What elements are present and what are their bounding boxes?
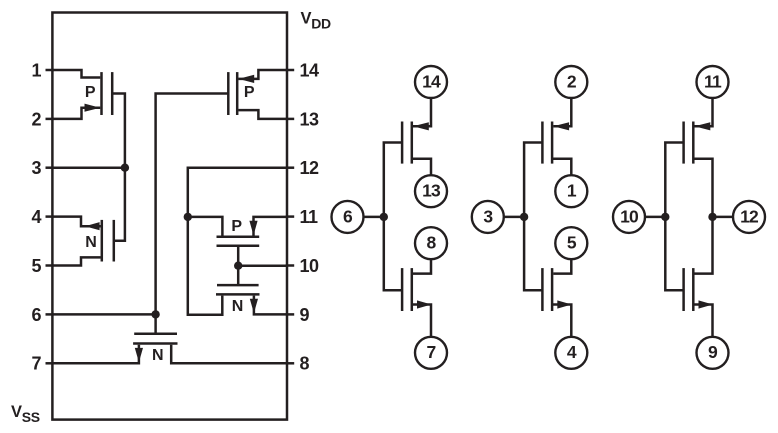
- svg-text:12: 12: [740, 206, 759, 226]
- svg-text:6: 6: [31, 305, 41, 325]
- pin 6 label: [31, 305, 41, 325]
- pin 1 label: [31, 60, 41, 80]
- wire pin 2 to PMOS source (group 2): [553, 98, 571, 126]
- wire NMOS source to pin 4 (group 2): [552, 305, 571, 337]
- PMOS source arrow group 3: [695, 122, 711, 130]
- NMOS transistor body group 3: [684, 268, 694, 311]
- Q1 label P: [85, 84, 96, 101]
- NMOS source arrow group 1: [417, 300, 431, 308]
- pin 6 terminal circle (group 1): [332, 201, 364, 233]
- wire pin 14 to PMOS source (group 1): [413, 98, 431, 126]
- svg-text:13: 13: [422, 181, 441, 201]
- transistor Q1 PMOS body (channel+gate bars): [102, 72, 113, 115]
- wire pin 1 to Q1 drain: [52, 70, 100, 78]
- svg-text:14: 14: [422, 71, 441, 91]
- svg-text:8: 8: [300, 354, 310, 374]
- junction node 3 (gates Q1,Q2): [121, 164, 129, 172]
- wire Q4 source to pin 7: [52, 345, 138, 364]
- NMOS gate wire to common gate node (group 2): [524, 217, 542, 290]
- NMOS transistor body group 2: [542, 268, 552, 311]
- transistor Q3 PMOS body (channel+gate bars): [228, 72, 237, 115]
- PMOS gate wire to common gate node (group 2): [524, 143, 542, 217]
- junction common drain node (group 3): [708, 213, 716, 221]
- NMOS gate wire to common gate node (group 1): [384, 217, 402, 290]
- wire Q6 source to pin 9: [254, 296, 287, 315]
- pin 8 label: [300, 354, 310, 374]
- svg-text:N: N: [232, 298, 243, 315]
- Q5 label P: [231, 218, 242, 235]
- svg-text:7: 7: [31, 354, 41, 374]
- svg-text:N: N: [152, 347, 163, 364]
- PMOS transistor body group 2: [542, 122, 552, 164]
- wire pin 10 to gate node (group 3): [645, 216, 665, 219]
- wire node 10 to Q6 gate: [237, 266, 240, 285]
- NMOS source arrow group 2: [557, 300, 571, 308]
- pin 13 terminal circle (group 1): [415, 175, 447, 207]
- transistor Q2 NMOS body (channel+gate bars): [102, 220, 114, 262]
- wire Q3 gate to node 6: [156, 94, 229, 315]
- junction node 6 (gates Q3,Q4): [151, 310, 159, 318]
- pin 14 stub: [286, 69, 295, 72]
- wire PMOS drain to pin 1 (group 2): [552, 159, 571, 176]
- Q3 source arrow (points into channel): [239, 75, 255, 83]
- Q4 source arrow (points away from channel, down): [135, 348, 143, 362]
- wire pin 13 to Q3 drain: [238, 110, 287, 119]
- svg-text:8: 8: [427, 233, 437, 253]
- pin 7 stub: [46, 362, 54, 365]
- transistor Q5 PMOS body (channel+gate bars): [217, 237, 260, 246]
- pin 5 stub: [46, 264, 54, 267]
- svg-text:P: P: [244, 84, 255, 101]
- pin 13 label: [300, 109, 320, 129]
- wire pin 4 to Q2 drain: [52, 217, 100, 227]
- pin 14 label: [300, 60, 320, 80]
- svg-text:5: 5: [31, 256, 41, 276]
- wire pin 12 to node 12: [188, 168, 287, 217]
- pin 2 stub: [46, 118, 54, 121]
- pin 7 terminal circle (group 1): [415, 337, 447, 369]
- wire PMOS drain to pin 13 (group 1): [412, 159, 431, 176]
- wire drain node to pin 12 (group 3): [713, 216, 734, 219]
- Q6 label N: [232, 298, 243, 315]
- pin 10 terminal circle (group 3): [613, 201, 645, 233]
- svg-text:2: 2: [31, 109, 41, 129]
- pin 12 label: [300, 158, 320, 178]
- svg-text:7: 7: [427, 342, 436, 362]
- pin 11 terminal circle (group 3): [697, 66, 729, 98]
- wire pin 11 to Q5 source: [254, 217, 288, 236]
- wire node 12 to Q5 drain: [188, 217, 223, 236]
- Q2 drain arrow (points away from channel): [85, 222, 100, 230]
- svg-text:N: N: [85, 234, 96, 251]
- pin 9 label: [300, 305, 310, 325]
- svg-text:12: 12: [300, 158, 320, 178]
- junction common gate node (group 3): [661, 213, 669, 221]
- pin 4 stub: [46, 215, 54, 218]
- svg-text:2: 2: [567, 71, 577, 91]
- wire pin 10 to node 10: [238, 264, 287, 267]
- pin 3 terminal circle (group 2): [472, 201, 504, 233]
- VDD label: [301, 10, 332, 32]
- Q4 label N: [152, 347, 163, 364]
- pin 13 stub: [286, 118, 295, 121]
- wire pin 14 to Q3 source: [238, 70, 287, 79]
- pin 11 stub: [286, 215, 295, 218]
- PMOS source arrow group 1: [413, 122, 429, 130]
- svg-text:9: 9: [708, 342, 718, 362]
- pin 8 stub: [286, 362, 295, 365]
- wire node 12 to Q6 drain: [188, 217, 223, 315]
- wire common drain (PMOS drain to NMOS drain) group 3: [693, 159, 712, 274]
- pin 2 label: [31, 109, 41, 129]
- PMOS source arrow group 2: [553, 122, 569, 130]
- Q1 source arrow (points into channel): [85, 104, 101, 112]
- pin 2 terminal circle (group 2): [555, 66, 587, 98]
- svg-text:14: 14: [300, 60, 320, 80]
- junction node 10 (gates Q5,Q6): [234, 262, 242, 270]
- svg-text:13: 13: [300, 109, 320, 129]
- pin 9 terminal circle (group 3): [697, 337, 729, 369]
- PMOS gate wire to common gate node (group 1): [384, 143, 402, 217]
- pin 9 stub: [286, 313, 295, 316]
- PMOS gate wire to common gate node (group 3): [665, 143, 683, 217]
- pin 10 stub: [286, 264, 295, 267]
- Q6 source arrow (points away from channel, down): [250, 299, 258, 313]
- PMOS transistor body group 1: [402, 122, 412, 164]
- svg-text:P: P: [85, 84, 96, 101]
- pin 1 terminal circle (group 2): [555, 175, 587, 207]
- pin 5 terminal circle (group 2): [555, 227, 587, 259]
- VSS label: [11, 403, 40, 425]
- wire pin 11 to PMOS source (group 3): [695, 98, 713, 126]
- wire node 6 to Q4 gate: [154, 314, 157, 332]
- pin 11 label: [300, 207, 319, 227]
- svg-text:4: 4: [567, 342, 577, 362]
- IC package outline: [52, 13, 287, 420]
- wire Q4 drain to pin 8: [171, 345, 287, 364]
- wire Q2 gate to node 3: [114, 168, 125, 241]
- wire NMOS source to pin 7 (group 1): [412, 305, 431, 337]
- wire pin 6 to gate node (group 1): [364, 216, 384, 219]
- pin 4 terminal circle (group 2): [555, 337, 587, 369]
- NMOS source arrow group 3: [699, 300, 713, 308]
- pin 12 terminal circle (group 3): [733, 201, 765, 233]
- PMOS transistor body group 3: [684, 122, 694, 164]
- pin 8 terminal circle (group 1): [415, 227, 447, 259]
- NMOS transistor body group 1: [402, 268, 412, 311]
- svg-text:5: 5: [567, 233, 577, 253]
- pin 12 stub: [286, 166, 295, 169]
- pin 10 label: [300, 256, 320, 276]
- svg-text:3: 3: [483, 206, 493, 226]
- svg-text:VDD: VDD: [301, 10, 332, 32]
- svg-text:1: 1: [567, 181, 577, 201]
- pin 14 terminal circle (group 1): [415, 66, 447, 98]
- transistor Q6 NMOS body (channel+gate bars): [216, 285, 260, 294]
- svg-text:9: 9: [300, 305, 310, 325]
- wire Q5 gate to node 10: [237, 246, 240, 266]
- pin 3 stub: [46, 166, 54, 169]
- wire pin 8 to NMOS drain (group 1): [413, 259, 431, 273]
- pin 1 stub: [46, 69, 54, 72]
- NMOS gate wire to common gate node (group 3): [665, 217, 683, 290]
- svg-text:11: 11: [704, 71, 722, 91]
- Q2 label N: [85, 234, 96, 251]
- wire pin 5 to Q2 source: [52, 257, 100, 265]
- svg-text:10: 10: [620, 206, 639, 226]
- pin 4 label: [31, 207, 41, 227]
- junction node 12 (drains Q5,Q6): [184, 213, 192, 221]
- svg-text:1: 1: [31, 60, 41, 80]
- pin 5 label: [31, 256, 41, 276]
- wire pin 2 to Q1 source: [52, 108, 100, 119]
- junction common gate node (group 2): [520, 213, 528, 221]
- Q5 source arrow (points into channel, down): [249, 221, 257, 236]
- svg-text:11: 11: [300, 207, 319, 227]
- wire pin 6 to gate node: [52, 313, 155, 316]
- svg-text:4: 4: [31, 207, 41, 227]
- transistor Q4 NMOS body (channel+gate bars): [133, 334, 177, 344]
- pin 6 stub: [46, 313, 54, 316]
- svg-text:P: P: [231, 218, 242, 235]
- svg-text:3: 3: [31, 158, 41, 178]
- svg-text:VSS: VSS: [11, 403, 40, 425]
- svg-text:10: 10: [300, 256, 320, 276]
- pin 7 label: [31, 354, 41, 374]
- wire pin 3 to gate node (group 2): [504, 216, 524, 219]
- junction common gate node (group 1): [380, 213, 388, 221]
- wire pin 5 to NMOS drain (group 2): [553, 259, 571, 273]
- wire Q1 gate to node 3: [112, 94, 125, 168]
- svg-text:6: 6: [343, 206, 353, 226]
- wire NMOS source to pin 9 (group 3): [693, 305, 712, 337]
- Q3 label P: [244, 84, 255, 101]
- wire pin 3 to gate node: [52, 166, 125, 169]
- pin 3 label: [31, 158, 41, 178]
